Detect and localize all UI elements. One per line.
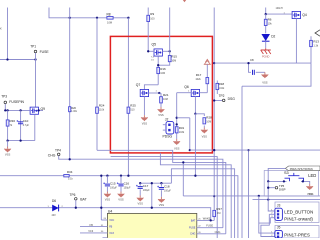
svg-text:VSS: VSS (158, 113, 164, 117)
resistor R30 (6, 120, 9, 126)
wire FUSE net (197, 227, 223, 229)
svg-text:C10: C10 (23, 119, 29, 123)
test point TP4 circle (57, 153, 60, 156)
svg-text:100: 100 (150, 17, 155, 20)
svg-text:TP6: TP6 (70, 193, 76, 197)
svg-text:TP4: TP4 (55, 149, 61, 153)
resistor R9 (147, 15, 150, 21)
capacitor C8 (253, 70, 255, 75)
wire bus path C18 riser (171, 169, 234, 238)
svg-text:Q6: Q6 (184, 85, 189, 89)
svg-text:R9: R9 (150, 12, 154, 16)
svg-text:VC3: VC3 (88, 229, 94, 233)
svg-text:1M: 1M (217, 212, 220, 215)
wire Q5 to R15 top (162, 50, 170, 52)
svg-text:TP2: TP2 (219, 94, 225, 98)
wire U4 pin FB (80, 226, 107, 228)
wire C18 lead (160, 183, 162, 186)
svg-text:WAKE: WAKE (203, 216, 211, 220)
junction below TP1 (34, 58, 36, 60)
connector J3 (275, 208, 283, 220)
svg-text:7.4: 7.4 (151, 57, 155, 59)
IC U4 body (107, 213, 196, 238)
resistor R13 (310, 40, 313, 46)
svg-text:R15: R15 (171, 54, 177, 58)
svg-text:VSS: VSS (105, 198, 111, 202)
junction S3 pin1 (283, 180, 285, 182)
svg-text:LED: LED (308, 173, 316, 178)
ground VSS below C15 (106, 192, 108, 194)
svg-text:C15: C15 (110, 182, 116, 186)
svg-text:PIN17-orward): PIN17-orward) (284, 216, 313, 221)
junction H150 DSG (213, 149, 215, 151)
wire R15 net from top (169, 8, 171, 52)
resistor R15 (168, 56, 171, 62)
wire vertical bus C R25 (127, 18, 129, 176)
svg-text:FB: FB (90, 223, 94, 227)
junction C17 net BAT (151, 207, 153, 209)
wire Q7 drain to R21 (149, 92, 160, 94)
ground PGND (261, 48, 271, 54)
wire R16 to Q7 drain (144, 85, 158, 90)
ground VSS below Q7 (143, 115, 145, 117)
wire C18 to ground (160, 190, 162, 197)
test point TP5 circle (275, 186, 278, 189)
wire C17 net to BAT (151, 183, 153, 208)
svg-text:FUSE: FUSE (189, 227, 196, 230)
svg-text:103k: 103k (179, 131, 185, 134)
junction R30 top (6, 109, 8, 111)
svg-text:7k: 7k (10, 124, 13, 127)
wire Q4 source down (295, 19, 297, 64)
wire R24 zigzag to CHG (97, 150, 226, 234)
svg-text:100nH: 100nH (276, 7, 283, 10)
resistor R21 (160, 97, 163, 103)
svg-text:R17: R17 (196, 73, 202, 77)
ground VSS below R31 (176, 139, 178, 141)
svg-text:5.1k: 5.1k (68, 178, 73, 181)
resistor R20 (69, 107, 71, 112)
wire R13 vertical (310, 36, 312, 63)
junction C15 top (106, 175, 108, 177)
wire to VSS ground (7, 141, 9, 147)
wire C15 to ground (106, 187, 108, 192)
svg-text:R34: R34 (67, 170, 73, 174)
junction R37 net (213, 195, 215, 197)
wire R30 branch (7, 110, 9, 140)
svg-text:10M: 10M (160, 72, 165, 75)
sheet box J3 (275, 202, 319, 223)
wire vertical VCC feeder (100, 176, 102, 220)
svg-text:VSS: VSS (202, 135, 208, 139)
wire TP1 stub (35, 53, 37, 60)
ground VSS right of C8 (264, 72, 266, 74)
capacitor C17 (138, 187, 143, 189)
svg-text:10M: 10M (171, 59, 176, 62)
wire R6 net from top (265, 8, 267, 15)
wire C17 lead (139, 183, 141, 186)
wire vertical bus A (69, 8, 71, 160)
wire Q7 source down (143, 97, 145, 116)
wire C8 to ground (256, 71, 265, 73)
junction bottom bus 1 (258, 195, 260, 197)
svg-text:R8: R8 (107, 13, 111, 17)
ground VSS below C16 (120, 192, 122, 194)
svg-text:C16: C16 (124, 182, 130, 186)
wire CHG pin net (197, 233, 226, 235)
svg-text:D6: D6 (52, 199, 56, 203)
wire J3 pin2 stub (269, 213, 275, 215)
wire D2 to PGND (265, 41, 267, 48)
svg-text:C17: C17 (143, 184, 149, 188)
svg-text:Q5: Q5 (152, 42, 157, 46)
wire R6 down (265, 14, 267, 33)
wire C8 branch (249, 63, 252, 72)
svg-text:FUSE: FUSE (206, 223, 213, 227)
wire vertical DSG bus (213, 8, 215, 221)
diode D2 (261, 34, 270, 41)
wire Q6 source to caps net (194, 114, 196, 176)
svg-text:J3: J3 (277, 203, 281, 207)
wire J3 pin3 stub (270, 217, 275, 219)
ground VSS below R21 (160, 107, 162, 109)
svg-text:CHG: CHG (48, 153, 56, 157)
wire U4 pin 4 stub (103, 237, 108, 239)
resistor R34 (64, 175, 69, 177)
resistor R6 (264, 19, 267, 25)
svg-text:VSS: VSS (138, 202, 144, 206)
wire U4 pin VCC (101, 219, 107, 221)
wire gate drive net (214, 62, 311, 64)
svg-text:10k: 10k (268, 22, 273, 25)
junction TP3 (4, 109, 6, 111)
wire vertical right bus 1 (241, 86, 243, 238)
wire TP2 stub (214, 100, 222, 102)
ground VSS below R30 (7, 147, 9, 149)
junction caps net (194, 175, 196, 177)
svg-text:100µF: 100µF (143, 189, 150, 192)
svg-text:10M: 10M (107, 21, 112, 25)
junction at left wire (6, 58, 8, 60)
svg-text:TP1: TP1 (30, 44, 36, 48)
wire C15 lead (106, 176, 108, 184)
ground VSS below R28 (203, 128, 205, 130)
junction pack wire (213, 149, 215, 151)
wire R18 stub (216, 81, 218, 95)
svg-text:100µF: 100µF (164, 190, 171, 193)
svg-text:510: 510 (130, 109, 135, 112)
junction R8 left (69, 17, 71, 19)
junction TP5 (267, 187, 269, 189)
resistor R16 (157, 67, 160, 73)
resistor R37 (213, 210, 216, 216)
svg-text:J5: J5 (277, 225, 281, 229)
svg-text:K: K (0, 27, 2, 31)
svg-text:R31: R31 (179, 126, 185, 130)
junction C17 top (139, 182, 141, 184)
wire C17 C18 net (140, 182, 171, 184)
wire R8 net horizontal (70, 17, 129, 19)
junction Q6 source (194, 113, 196, 115)
transistor Q6 (191, 89, 199, 96)
wire R21 branch (159, 93, 161, 107)
svg-text:D2: D2 (271, 35, 275, 39)
svg-text:VC3: VC3 (109, 232, 114, 235)
wire to R28 (195, 114, 204, 116)
junction bottom bus 2 (267, 198, 269, 200)
wire C16 to ground (120, 187, 122, 192)
transistor Q7 (140, 89, 148, 96)
test point TP1 circle (34, 50, 37, 53)
junction R8 mid (96, 17, 98, 19)
wire S3 left (268, 180, 286, 182)
ground VSS right of S3 (309, 184, 311, 186)
wire J2 pin1 stub (163, 124, 166, 126)
svg-text:S3: S3 (284, 171, 289, 175)
svg-text:10M: 10M (206, 120, 211, 123)
junction R8 right (127, 17, 129, 19)
junction R15 top (169, 50, 171, 52)
svg-text:R13: R13 (313, 39, 319, 43)
ground VSS below C17 (139, 196, 141, 198)
ground VSS below C18 (160, 197, 162, 199)
wire R9 vertical (147, 8, 149, 52)
wire gate branch down (176, 93, 178, 139)
wire to shutdown flag (268, 168, 285, 181)
wire bus feeder A (189, 118, 191, 150)
wire Q4 gate (266, 13, 293, 15)
resistor R24 (96, 107, 99, 113)
junction TP4 bus A (69, 158, 71, 160)
svg-text:VSS: VSS (262, 80, 268, 84)
svg-text:Q7: Q7 (136, 83, 141, 87)
svg-text:R25: R25 (130, 104, 136, 108)
wire S3 to J3 (267, 181, 269, 199)
switch S3 (285, 173, 304, 181)
svg-text:VSS: VSS (5, 153, 11, 157)
diode D6 (52, 205, 58, 212)
wire J3 pin1 (268, 200, 275, 211)
svg-text:BAT: BAT (80, 198, 86, 202)
junction R16 top (157, 64, 159, 66)
wire bus to J5 pin1 (259, 196, 275, 233)
junction R25 bottom (127, 175, 129, 177)
wire corner to R8 net (49, 8, 70, 18)
junction TP2 (213, 99, 215, 101)
wire bottom bus 1 (183, 195, 320, 197)
svg-text:1.00k: 1.00k (71, 111, 77, 113)
wire TP5 stub (268, 187, 275, 189)
junction C10 bottom (19, 139, 21, 141)
wire J2 pin2 stub (163, 129, 166, 131)
svg-text:C18: C18 (164, 185, 170, 189)
junction feeder A1 (189, 149, 191, 151)
svg-text:VSS: VSS (159, 203, 165, 207)
svg-text:BAT: BAT (191, 219, 196, 222)
svg-text:PGND: PGND (262, 55, 270, 59)
svg-text:R20: R20 (71, 107, 76, 110)
connector J5 (275, 230, 283, 238)
wire TP3 stub (4, 104, 6, 111)
wire C16 lead (120, 176, 122, 184)
wire bottom bus 2 (253, 199, 320, 201)
wire C17 to ground (139, 189, 141, 195)
connector J2 (166, 122, 174, 134)
junction right bus 2 (247, 149, 249, 151)
junction C16 top (120, 175, 122, 177)
wire to bottom bus (182, 162, 184, 196)
svg-text:VSS: VSS (142, 121, 148, 125)
svg-text:FUSE: FUSE (40, 50, 50, 54)
svg-text:PDSG: PDSG (163, 134, 173, 138)
wire TP1 to Q9 drain (35, 60, 37, 108)
svg-text:10M: 10M (163, 98, 168, 101)
junction TP6 (75, 207, 77, 209)
svg-text:J2: J2 (165, 118, 169, 122)
wire BAT- caps bus (0, 176, 238, 238)
wire to bus down (177, 117, 190, 119)
net flag right edge (315, 30, 320, 36)
transistor Q4 (292, 11, 300, 18)
svg-text:4.02k: 4.02k (218, 87, 225, 90)
resistor R31 (175, 127, 178, 133)
junction BAT WAKE (210, 219, 212, 221)
junction VCC R34 (100, 175, 102, 177)
svg-text:40V: 40V (52, 214, 57, 217)
wire R28 to ground (203, 126, 205, 128)
svg-text:102k: 102k (195, 78, 201, 81)
resistor R18 (216, 83, 219, 89)
svg-text:U4: U4 (108, 209, 113, 213)
junction J2 net (176, 123, 178, 125)
test point TP3 circle (4, 101, 7, 104)
junction R31 top (176, 117, 178, 119)
wire BAT net horizontal (0, 208, 211, 221)
junction C10 top (19, 109, 21, 111)
resistor R25 (127, 107, 130, 113)
svg-text:VSS: VSS (118, 198, 124, 202)
svg-text:FUSEPIN: FUSEPIN (9, 100, 24, 104)
svg-text:Q4: Q4 (302, 13, 307, 17)
junction C8 (247, 62, 249, 64)
wire bus path D (160, 153, 231, 238)
svg-text:1.3k: 1.3k (313, 44, 318, 47)
wire V left from top (7, 8, 9, 60)
svg-text:CHG: CHG (190, 233, 195, 236)
sheet box S3 (264, 171, 318, 197)
svg-text:DSG: DSG (228, 97, 236, 101)
wire TP6 stub (75, 200, 77, 208)
svg-text:100µF: 100µF (110, 187, 117, 190)
wire vertical bus B R24 (96, 18, 98, 151)
net flag PRES SHUTDOWN (285, 166, 320, 171)
wire R17 vertical (206, 64, 208, 92)
highlight red box (110, 36, 212, 152)
svg-text:100µF: 100µF (124, 187, 131, 190)
junction S3 left (267, 180, 269, 182)
wire WAKE net (197, 219, 214, 221)
junction R6 top (265, 13, 267, 15)
wire U4 pin VC3 (80, 232, 107, 234)
resistor R8 (107, 16, 113, 19)
svg-text:R28: R28 (206, 115, 212, 119)
wire R9 to Q5 (148, 50, 154, 52)
svg-text:FB: FB (109, 226, 112, 229)
svg-text:R18: R18 (219, 82, 225, 86)
wire R30 C10 bottom (8, 140, 35, 142)
junction Q5 gate (147, 50, 149, 52)
wire J3 pin3 left (259, 218, 271, 223)
junction zig bottom bus (182, 161, 184, 163)
svg-text:VSS: VSS (174, 146, 180, 150)
wire Q5 source to R16 (157, 56, 159, 85)
wire bus H150 (190, 149, 320, 151)
svg-text:4.7µF: 4.7µF (23, 124, 30, 127)
junction S3 pin2 (302, 180, 304, 182)
test point TP6 circle (75, 198, 78, 201)
junction Q9 drain (38, 109, 40, 111)
wire Q6 gate (177, 92, 192, 94)
svg-text:1.6: 1.6 (151, 60, 155, 62)
wire Q6 source down (194, 97, 196, 114)
resistor R17 (206, 78, 209, 84)
wire Q9 drain stub (39, 109, 44, 111)
capacitor C15 (105, 184, 110, 186)
wire mid bus path (111, 157, 218, 238)
svg-text:PIN17-PRES: PIN17-PRES (284, 233, 310, 238)
capacitor C18 (159, 188, 164, 190)
capacitor C16 (118, 184, 123, 186)
wire J3 pin2 to J5 (261, 214, 275, 236)
transistor Q5 (154, 49, 162, 56)
transistor Q9 (30, 107, 38, 114)
junction VCC BAT (100, 207, 102, 209)
junction R21 top (158, 92, 160, 94)
svg-text:R30: R30 (10, 119, 16, 123)
wire vertical right bus 2 (248, 150, 250, 238)
sheet box J5 (275, 226, 319, 239)
svg-text:CHG: CHG (215, 230, 221, 234)
test point TP2 circle (222, 99, 225, 102)
svg-text:PRES./SHUTDOWN: PRES./SHUTDOWN (290, 168, 313, 171)
wire S3 right to ground (301, 181, 310, 184)
svg-text:TP3: TP3 (1, 95, 7, 99)
svg-text:VCC: VCC (109, 219, 114, 222)
wire R15 bottom jog (158, 51, 170, 65)
svg-text:R24: R24 (99, 104, 105, 108)
svg-text:VSS: VSS (307, 192, 313, 196)
junction R30 bottom (6, 139, 8, 141)
svg-text:C8: C8 (250, 58, 254, 62)
wire C10 branch (20, 110, 22, 140)
wire Q9 source down (34, 114, 36, 140)
junction C17 net top (151, 182, 153, 184)
wire CHG net to right (59, 156, 223, 228)
wire Q9 gate net (4, 109, 29, 111)
svg-text:DISP: DISP (279, 188, 286, 192)
junction DSG wire (213, 62, 215, 64)
wire Q6 drain to R17 (200, 92, 208, 94)
svg-text:110k: 110k (99, 109, 105, 112)
wire pack sense U (242, 63, 311, 86)
resistor R28 (203, 118, 206, 124)
junction C18 top (160, 182, 162, 184)
power flag VSS above R17 (204, 61, 210, 65)
svg-text:R37: R37 (216, 207, 222, 211)
svg-text:R21: R21 (163, 93, 169, 97)
svg-text:LED_BUTTON: LED_BUTTON (284, 209, 313, 214)
capacitor C10 (18, 122, 23, 124)
